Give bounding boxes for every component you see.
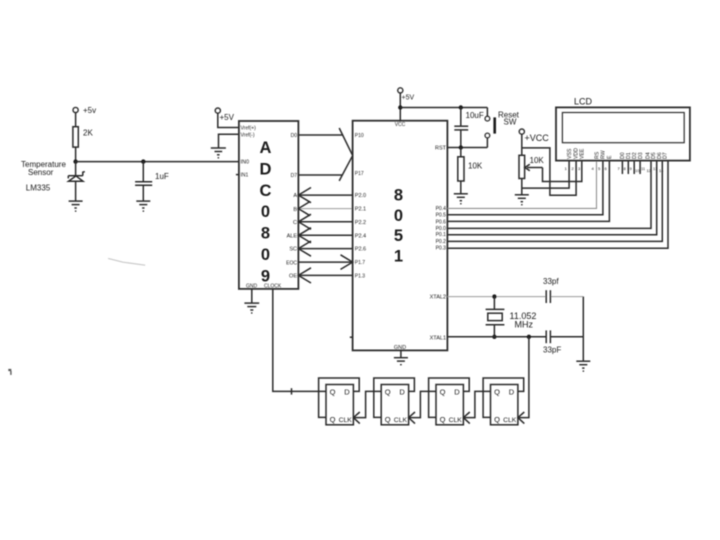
resistor 2K (73, 127, 94, 147)
power terminal +VCC (LCD) (519, 129, 549, 143)
sensor LM335 (zener symbol) (68, 162, 85, 202)
svg-text:P2.0: P2.0 (355, 193, 366, 199)
wire data bus D7 (298, 174, 342, 176)
wire +VCC branch to LCD VDD (522, 148, 576, 195)
svg-text:P0.0: P0.0 (436, 226, 447, 232)
svg-text:P1.3: P1.3 (355, 274, 366, 280)
svg-text:P0.6: P0.6 (436, 219, 447, 225)
svg-text:1uF: 1uF (155, 172, 169, 181)
svg-text:CLK: CLK (394, 417, 408, 424)
flip-flop FF2 (374, 378, 415, 425)
ground (pot / VSS) (515, 195, 529, 206)
pin stub LCD D0 (621, 162, 623, 175)
svg-text:Vref(-): Vref(-) (241, 133, 255, 139)
svg-text:GND: GND (394, 345, 406, 351)
svg-text:P10: P10 (355, 133, 364, 139)
pin stub LCD D2 (633, 162, 635, 175)
svg-text:MHz: MHz (515, 320, 534, 330)
svg-text:VCC: VCC (395, 122, 406, 128)
wire LCD D5 to P0.1 (447, 162, 656, 235)
scan artifact mark (8, 369, 11, 375)
wire LCD VSS to ground (522, 162, 569, 189)
wire OE / P1.3 (298, 268, 352, 283)
switch Reset SW (485, 108, 520, 148)
svg-text:+5v: +5v (83, 106, 96, 115)
svg-text:CLK: CLK (339, 417, 353, 424)
svg-text:P2.2: P2.2 (355, 220, 366, 226)
power terminal +5V (8051 VCC) (398, 88, 415, 102)
svg-text:C: C (293, 220, 297, 226)
wire LCD D6 to P0.2 (447, 162, 662, 242)
svg-text:33pf: 33pf (543, 277, 559, 286)
svg-text:8: 8 (261, 225, 270, 243)
wire LCD E to P0.6 (447, 162, 609, 222)
svg-text:EOC: EOC (286, 260, 297, 266)
ground (LM335) (69, 201, 83, 212)
svg-text:D3: D3 (638, 152, 644, 159)
tick on clock wire (291, 388, 293, 394)
svg-text:CLK: CLK (449, 417, 463, 424)
flip-flop FF4 (483, 378, 524, 425)
node crystal top (492, 294, 496, 298)
pin stub 8051 left edge (EA) (350, 336, 353, 338)
capacitor 33pF (XTAL1) (543, 330, 561, 354)
wire XTAL1 net (447, 336, 546, 338)
svg-text:Q: Q (330, 388, 336, 397)
wire EOC / P1.7 (arrow into 8051) (298, 255, 352, 270)
crystal 11.052 MHz (486, 297, 537, 337)
node VCC rail (398, 105, 402, 109)
svg-text:P1.7: P1.7 (355, 260, 366, 266)
label Temperature Sensor LM335 (21, 160, 66, 193)
svg-text:LM335: LM335 (26, 184, 51, 193)
svg-text:P2.1: P2.1 (355, 207, 366, 213)
svg-text:E: E (607, 155, 613, 159)
wire RST net (447, 147, 487, 149)
resistor 10K (RST pulldown) (458, 148, 483, 194)
wire C / P2.2 (298, 214, 352, 229)
wire +5v to resistor 2K (75, 113, 77, 127)
wire ADC GND pin (251, 289, 253, 303)
ground (Vref-) (211, 148, 226, 158)
wire 2K to node (75, 147, 77, 162)
ground (crystal caps) (576, 361, 590, 372)
wire ADC CLOCK to divider output (273, 289, 326, 392)
svg-text:P17: P17 (355, 171, 364, 177)
svg-text:D: D (509, 388, 515, 397)
wire LCD RW to P0.5 (447, 162, 603, 215)
svg-text:ALE: ALE (287, 233, 298, 239)
svg-text:RS: RS (594, 151, 600, 159)
svg-text:CLOCK: CLOCK (264, 283, 282, 289)
wire caps to ground (582, 297, 584, 362)
svg-text:D: D (344, 388, 350, 397)
svg-text:LCD: LCD (574, 97, 593, 107)
capacitor 33pf (XTAL2) (543, 277, 559, 303)
ground (8051) (394, 358, 408, 366)
wire ALE / P2.4 (298, 228, 352, 243)
node RST (459, 145, 463, 149)
svg-text:P0.1: P0.1 (436, 232, 447, 238)
wire FF3 Q to FF2 CLK (409, 391, 436, 417)
wire LCD RS to P0.4 (447, 162, 596, 209)
pin stub LCD D3 (639, 162, 641, 175)
wire FF4 Q to FF3 CLK (463, 391, 490, 417)
wire XTAL1 clock to FF4 CLK (518, 337, 529, 418)
ground (1uF) (136, 201, 150, 212)
svg-text:Q: Q (385, 388, 391, 397)
svg-text:P0.3: P0.3 (436, 246, 447, 252)
wire +5V to VCC pin (399, 93, 401, 121)
svg-text:A: A (260, 139, 272, 157)
svg-text:IN0: IN0 (241, 160, 250, 166)
svg-text:VEE: VEE (580, 148, 586, 159)
svg-text:RST: RST (435, 146, 447, 152)
node 1uF tap (141, 159, 145, 163)
pin numbers LCD 1-14 (565, 166, 665, 173)
wire SC / P2.6 (298, 241, 352, 256)
wire LCD D4 to P0.0 (447, 162, 651, 229)
bus chevron to 8051 P1 port (339, 128, 352, 181)
svg-text:SW: SW (504, 118, 517, 127)
svg-text:P0.2: P0.2 (436, 239, 447, 245)
svg-text:D7: D7 (663, 152, 669, 159)
svg-text:33pF: 33pF (543, 346, 561, 355)
node clock takeoff (527, 335, 531, 339)
IC 8051 (353, 121, 448, 351)
node 10uF tap (459, 105, 463, 109)
svg-text:Q: Q (440, 388, 446, 397)
power terminal +5v (sensor branch) (73, 106, 96, 115)
svg-text:D7: D7 (291, 173, 298, 179)
svg-text:D: D (399, 388, 405, 397)
svg-text:0: 0 (261, 203, 270, 221)
ground (ADC GND) (244, 303, 259, 314)
svg-text:P0.4: P0.4 (436, 206, 447, 212)
svg-text:Q: Q (330, 415, 336, 424)
capacitor 1uF (135, 162, 169, 202)
svg-text:OE: OE (289, 274, 297, 280)
potentiometer 10K (contrast) (519, 155, 544, 195)
svg-text:A: A (293, 193, 297, 199)
svg-text:1: 1 (394, 247, 403, 265)
svg-text:5: 5 (394, 227, 403, 245)
svg-text:CLK: CLK (503, 417, 517, 424)
svg-text:P2.6: P2.6 (355, 247, 366, 253)
wire A / P2.0 (298, 188, 352, 203)
wire LCD D7 to P0.3 (447, 162, 668, 249)
svg-text:+5V: +5V (220, 113, 235, 122)
svg-text:10K: 10K (468, 162, 483, 171)
svg-text:Q: Q (494, 388, 500, 397)
wire 8051 GND pin (400, 350, 402, 357)
svg-text:RW: RW (601, 150, 607, 159)
ground (10K RST) (454, 194, 468, 205)
svg-text:0: 0 (261, 246, 270, 264)
svg-text:P2.4: P2.4 (355, 233, 366, 239)
flip-flop FF1 (319, 378, 360, 425)
svg-text:P0.5: P0.5 (436, 213, 447, 219)
svg-text:VSS: VSS (567, 148, 573, 159)
svg-text:Sensor: Sensor (28, 168, 54, 177)
svg-text:D0: D0 (291, 133, 298, 139)
svg-text:Q: Q (440, 415, 446, 424)
svg-text:Q: Q (494, 415, 500, 424)
svg-text:8: 8 (394, 187, 403, 205)
svg-text:2K: 2K (83, 129, 93, 138)
wire Vref(-) to ground (219, 134, 239, 148)
wire +VCC to pot (521, 134, 523, 155)
svg-text:10K: 10K (530, 156, 545, 165)
wire B / P2.1 (faint) (298, 202, 352, 216)
svg-text:Vref(+): Vref(+) (241, 126, 257, 132)
wire XTAL2 net (447, 296, 546, 298)
svg-text:IN1: IN1 (241, 173, 249, 179)
svg-text:XTAL2: XTAL2 (430, 295, 446, 301)
svg-text:+5V: +5V (402, 94, 415, 101)
wire data bus D0 (298, 134, 343, 136)
svg-text:D: D (260, 160, 272, 178)
wire +5V to Vref(+) (218, 113, 239, 127)
svg-text:GND: GND (246, 283, 258, 289)
svg-text:Q: Q (385, 415, 391, 424)
svg-text:0: 0 (394, 207, 403, 225)
IC ADC0809 (239, 121, 299, 289)
power terminal +5V (ADC Vref) (215, 108, 234, 122)
LCD module (556, 97, 690, 161)
pin stub LCD D1 (627, 162, 629, 175)
svg-text:10uF: 10uF (466, 111, 484, 120)
node sensor junction (73, 159, 77, 163)
wire pot wiper to LCD VEE (543, 162, 582, 182)
wire main analog line to ADC IN0 (76, 161, 239, 163)
svg-text:SC: SC (289, 247, 297, 253)
flip-flop FF3 (429, 378, 470, 425)
svg-text:D: D (454, 388, 460, 397)
svg-text:B: B (293, 207, 297, 213)
pin IN1 stub (236, 174, 239, 176)
wire FF2 Q to FF1 CLK (353, 391, 381, 417)
node crystal bottom (492, 335, 496, 339)
svg-text:C: C (260, 182, 272, 200)
wire VCC rail to reset switch (400, 107, 487, 109)
svg-text:+VCC: +VCC (525, 133, 550, 143)
svg-text:XTAL1: XTAL1 (430, 335, 446, 341)
scan artifact squiggle (108, 258, 145, 265)
capacitor 10uF (454, 108, 484, 148)
